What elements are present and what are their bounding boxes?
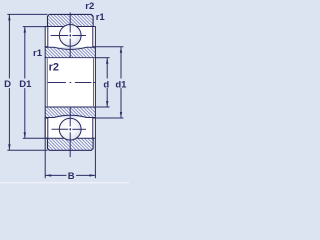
svg-text:r2: r2: [49, 61, 59, 73]
outer ring bottom section: [48, 138, 94, 150]
page background: [0, 0, 129, 188]
bore region (white with chamfer lines): [45, 58, 95, 107]
axis centerline: [48, 82, 96, 84]
dimension d extension lines: [95, 57, 109, 59]
inner ring bottom section: [45, 107, 95, 118]
faint page artifact line at bottom: [0, 182, 129, 183]
dimension D extension lines: [7, 13, 47, 15]
dimension D1 line: [24, 27, 26, 139]
svg-text:B: B: [68, 171, 75, 182]
dimension D line: [8, 14, 10, 150]
gap region bottom (white): [48, 118, 92, 138]
inner ring top section: [45, 47, 95, 58]
gap region top (white): [48, 27, 92, 47]
svg-text:d: d: [103, 79, 109, 90]
label d1: [115, 79, 128, 91]
svg-text:D: D: [4, 79, 11, 90]
dimension d line: [106, 58, 108, 107]
shield top-right: [93, 27, 96, 47]
shield bottom-left: [45, 118, 48, 138]
label d: [102, 79, 112, 91]
svg-text:r1: r1: [33, 48, 43, 59]
svg-text:D1: D1: [19, 79, 32, 90]
label D: [3, 79, 13, 91]
dimension d1 line: [120, 47, 122, 118]
label D1: [18, 79, 33, 91]
shield bottom-right: [93, 118, 96, 138]
svg-text:r1: r1: [96, 12, 106, 23]
ball top: [51, 13, 86, 58]
B extension lines (faces down to B line): [44, 117, 46, 178]
shield top-left: [45, 27, 48, 47]
dimension B line: [45, 174, 95, 176]
dimension D1 extension lines: [23, 26, 48, 28]
dimension d1 extension lines: [95, 46, 123, 48]
ball bottom: [52, 107, 87, 157]
svg-text:r2: r2: [85, 1, 94, 12]
label B: [67, 171, 77, 182]
outer ring top section: [48, 14, 94, 26]
svg-text:d1: d1: [115, 79, 127, 90]
